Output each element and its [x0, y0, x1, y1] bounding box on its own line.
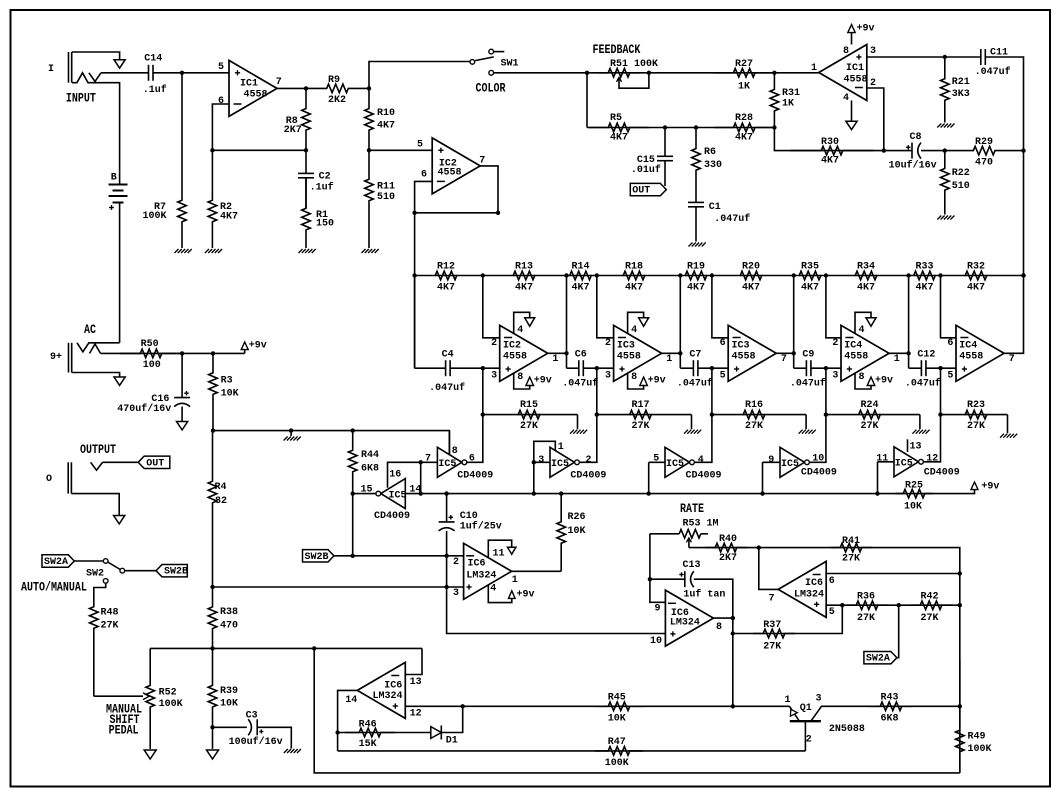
svg-text:R14: R14 [572, 262, 590, 273]
svg-text:R43: R43 [881, 692, 899, 703]
svg-text:CD4009: CD4009 [924, 467, 960, 478]
svg-text:IC5: IC5 [895, 458, 913, 469]
svg-text:AC: AC [84, 322, 96, 338]
svg-text:6K8: 6K8 [361, 464, 379, 475]
svg-text:R16: R16 [745, 400, 763, 411]
svg-text:8: 8 [716, 622, 722, 633]
svg-text:+9v: +9v [648, 376, 666, 387]
svg-text:8: 8 [631, 372, 637, 383]
svg-text:LM324: LM324 [670, 617, 700, 628]
svg-text:7: 7 [781, 354, 787, 365]
svg-text:27K: 27K [842, 553, 860, 564]
svg-text:6: 6 [720, 338, 726, 349]
svg-text:4K7: 4K7 [967, 283, 985, 294]
svg-text:330: 330 [704, 160, 722, 171]
svg-text:9: 9 [768, 455, 774, 466]
svg-text:R44: R44 [361, 450, 379, 461]
svg-text:R46: R46 [359, 719, 377, 730]
svg-text:R21: R21 [952, 77, 970, 88]
svg-text:R13: R13 [515, 262, 533, 273]
svg-text:R15: R15 [520, 400, 538, 411]
svg-text:FEEDBACK: FEEDBACK [593, 42, 642, 58]
svg-text:27K: 27K [745, 421, 763, 432]
svg-text:4: 4 [631, 325, 637, 336]
svg-text:6: 6 [421, 170, 427, 181]
svg-text:10K: 10K [904, 501, 922, 512]
svg-text:4: 4 [517, 325, 523, 336]
svg-text:7: 7 [1009, 354, 1015, 365]
svg-text:1: 1 [552, 354, 558, 365]
svg-text:C8: C8 [910, 132, 922, 143]
svg-text:+9v: +9v [249, 341, 267, 352]
svg-text:R45: R45 [608, 692, 626, 703]
svg-text:2: 2 [832, 338, 838, 349]
svg-text:11: 11 [876, 453, 888, 464]
svg-text:R23: R23 [967, 400, 985, 411]
svg-text:100K: 100K [159, 699, 183, 710]
svg-text:470: 470 [220, 620, 238, 631]
svg-text:R32: R32 [967, 262, 985, 273]
svg-text:27K: 27K [101, 621, 119, 632]
svg-text:R27: R27 [735, 59, 753, 70]
svg-text:1: 1 [558, 442, 564, 453]
svg-text:1: 1 [666, 354, 672, 365]
svg-text:4558: 4558 [732, 352, 756, 363]
svg-text:4558: 4558 [617, 352, 641, 363]
svg-text:IC6: IC6 [468, 559, 486, 570]
svg-text:5: 5 [417, 139, 423, 150]
svg-text:R50: R50 [141, 339, 159, 350]
svg-text:7: 7 [479, 156, 485, 167]
svg-text:5: 5 [218, 62, 224, 73]
svg-text:C2: C2 [319, 171, 331, 182]
svg-text:27K: 27K [921, 613, 939, 624]
svg-text:.047uf: .047uf [714, 213, 750, 225]
svg-text:C6: C6 [575, 349, 587, 360]
svg-text:PEDAL: PEDAL [109, 722, 139, 738]
svg-text:R52: R52 [159, 687, 177, 698]
svg-text:4K7: 4K7 [735, 132, 753, 143]
svg-text:R28: R28 [735, 113, 753, 124]
svg-text:R34: R34 [857, 262, 875, 273]
svg-text:.1uf: .1uf [143, 84, 167, 96]
svg-text:OUTPUT: OUTPUT [80, 442, 116, 458]
svg-text:C1: C1 [709, 202, 721, 213]
svg-text:C9: C9 [802, 349, 814, 360]
svg-text:1: 1 [785, 695, 791, 706]
svg-text:3: 3 [870, 46, 876, 57]
svg-text:.047uf: .047uf [905, 378, 941, 390]
svg-text:C12: C12 [917, 349, 935, 360]
svg-text:CD4009: CD4009 [801, 468, 837, 479]
svg-text:R40: R40 [719, 534, 737, 545]
svg-text:IC5: IC5 [551, 459, 569, 470]
svg-text:R36: R36 [857, 591, 875, 602]
svg-text:R53 1M: R53 1M [683, 518, 719, 529]
svg-text:3: 3 [453, 588, 459, 599]
svg-text:SW2: SW2 [86, 569, 104, 580]
svg-text:CD4009: CD4009 [457, 471, 493, 482]
svg-text:R18: R18 [625, 262, 643, 273]
svg-text:+9v: +9v [517, 589, 535, 600]
svg-text:R29: R29 [975, 137, 993, 148]
svg-text:4K7: 4K7 [515, 283, 533, 294]
svg-text:10K: 10K [568, 526, 586, 537]
svg-text:R17: R17 [632, 400, 650, 411]
svg-text:4K7: 4K7 [742, 283, 760, 294]
svg-text:R22: R22 [952, 168, 970, 179]
svg-text:2K2: 2K2 [328, 95, 346, 106]
svg-text:IC4: IC4 [959, 340, 977, 351]
svg-text:R26: R26 [568, 512, 586, 523]
svg-text:15: 15 [361, 484, 373, 495]
svg-text:6K8: 6K8 [881, 713, 899, 724]
svg-text:2: 2 [586, 455, 592, 466]
svg-text:2: 2 [605, 338, 611, 349]
svg-text:B: B [111, 173, 117, 184]
svg-text:3: 3 [832, 371, 838, 382]
svg-text:4558: 4558 [438, 168, 462, 179]
svg-text:7: 7 [425, 453, 431, 464]
svg-text:C10: C10 [460, 511, 478, 522]
svg-text:16: 16 [389, 469, 401, 480]
svg-text:4: 4 [698, 455, 704, 466]
svg-text:R30: R30 [821, 137, 839, 148]
svg-text:1: 1 [894, 354, 900, 365]
svg-text:IC4: IC4 [844, 340, 862, 351]
svg-text:D1: D1 [446, 735, 458, 746]
svg-text:R33: R33 [916, 262, 934, 273]
svg-text:SW2B: SW2B [305, 552, 329, 563]
svg-text:IC1: IC1 [240, 78, 258, 89]
svg-text:2N5088: 2N5088 [829, 724, 865, 735]
svg-text:14: 14 [345, 695, 357, 706]
svg-text:C14: C14 [144, 53, 162, 64]
svg-text:R5: R5 [610, 113, 622, 124]
svg-text:CD4009: CD4009 [686, 471, 722, 482]
svg-text:12: 12 [410, 708, 422, 719]
svg-text:SW2A: SW2A [44, 557, 68, 568]
svg-text:8: 8 [843, 46, 849, 57]
svg-text:OUT: OUT [632, 186, 650, 197]
svg-text:5: 5 [653, 453, 659, 464]
svg-text:4558: 4558 [844, 75, 868, 86]
svg-text:IC3: IC3 [617, 340, 635, 351]
svg-text:510: 510 [952, 181, 970, 192]
svg-text:OUT: OUT [146, 458, 164, 469]
svg-text:10: 10 [650, 636, 662, 647]
svg-text:100K: 100K [143, 211, 167, 222]
svg-text:CD4009: CD4009 [570, 471, 606, 482]
svg-text:R38: R38 [220, 607, 238, 618]
svg-text:R11: R11 [377, 182, 395, 193]
svg-text:11: 11 [493, 549, 505, 560]
svg-text:4K7: 4K7 [610, 132, 628, 143]
svg-text:CD4009: CD4009 [374, 511, 410, 522]
svg-text:.047uf: .047uf [562, 378, 598, 390]
svg-text:2: 2 [453, 557, 459, 568]
svg-text:150: 150 [316, 218, 334, 229]
svg-text:+9v: +9v [981, 481, 999, 492]
svg-text:R42: R42 [921, 591, 939, 602]
svg-text:7: 7 [769, 593, 775, 604]
svg-text:4K7: 4K7 [857, 283, 875, 294]
svg-text:27K: 27K [967, 421, 985, 432]
svg-text:4K7: 4K7 [687, 283, 705, 294]
svg-text:4: 4 [490, 584, 496, 595]
svg-text:INPUT: INPUT [66, 90, 96, 106]
svg-text:R9: R9 [328, 75, 340, 86]
svg-text:13: 13 [410, 677, 422, 688]
svg-text:R51 100K: R51 100K [610, 59, 658, 70]
svg-text:4: 4 [859, 325, 865, 336]
svg-text:4558: 4558 [844, 352, 868, 363]
svg-text:I: I [48, 64, 54, 75]
svg-text:4K7: 4K7 [801, 283, 819, 294]
svg-text:IC5: IC5 [389, 490, 407, 501]
svg-text:R48: R48 [101, 608, 119, 619]
svg-text:6: 6 [218, 96, 224, 107]
svg-text:9+: 9+ [50, 352, 62, 363]
svg-text:100: 100 [143, 360, 161, 371]
svg-text:1K: 1K [782, 98, 794, 109]
svg-text:27K: 27K [857, 613, 875, 624]
svg-text:100uf/16v: 100uf/16v [229, 736, 283, 748]
svg-text:R47: R47 [608, 737, 626, 748]
svg-text:2K7: 2K7 [284, 125, 302, 136]
svg-text:R37: R37 [763, 620, 781, 631]
svg-text:R25: R25 [905, 480, 923, 491]
svg-text:470uf/16v: 470uf/16v [117, 403, 171, 415]
svg-text:SW1: SW1 [501, 59, 519, 70]
svg-text:C3: C3 [246, 710, 258, 721]
svg-text:1uf/25v: 1uf/25v [460, 521, 502, 533]
svg-text:R41: R41 [842, 536, 860, 547]
svg-text:R20: R20 [742, 262, 760, 273]
svg-text:3K3: 3K3 [952, 89, 970, 100]
svg-text:R10: R10 [377, 108, 395, 119]
svg-text:13: 13 [910, 441, 922, 452]
svg-text:+9v: +9v [857, 24, 875, 35]
svg-text:.01uf: .01uf [631, 164, 661, 176]
svg-text:IC2: IC2 [503, 340, 521, 351]
svg-text:1: 1 [512, 575, 518, 586]
svg-text:10uf/16v: 10uf/16v [889, 159, 937, 171]
svg-text:8: 8 [517, 372, 523, 383]
svg-text:1: 1 [811, 63, 817, 74]
svg-text:1K: 1K [738, 82, 750, 93]
svg-text:2: 2 [491, 338, 497, 349]
svg-text:R35: R35 [801, 262, 819, 273]
svg-text:R12: R12 [437, 262, 455, 273]
svg-text:4558: 4558 [959, 352, 983, 363]
svg-text:R4: R4 [215, 482, 227, 493]
svg-text:.1uf: .1uf [310, 181, 334, 193]
svg-text:IC5: IC5 [666, 459, 684, 470]
svg-text:SW2B: SW2B [164, 567, 188, 578]
svg-text:10K: 10K [608, 714, 626, 725]
svg-text:R6: R6 [704, 147, 716, 158]
svg-text:4K7: 4K7 [916, 283, 934, 294]
svg-text:R3: R3 [221, 376, 233, 387]
svg-text:.047uf: .047uf [429, 382, 465, 394]
svg-text:4: 4 [843, 93, 849, 104]
svg-text:+9v: +9v [534, 376, 552, 387]
svg-text:14: 14 [409, 484, 421, 495]
svg-text:3: 3 [538, 455, 544, 466]
svg-text:R49: R49 [968, 731, 986, 742]
svg-text:5: 5 [720, 371, 726, 382]
svg-text:O: O [46, 474, 52, 485]
svg-text:82: 82 [215, 496, 227, 507]
svg-text:27K: 27K [520, 421, 538, 432]
svg-text:10K: 10K [220, 699, 238, 710]
svg-text:LM324: LM324 [466, 570, 496, 581]
svg-text:R24: R24 [861, 400, 879, 411]
svg-text:R39: R39 [220, 686, 238, 697]
svg-text:4K7: 4K7 [572, 283, 590, 294]
svg-text:8: 8 [859, 372, 865, 383]
svg-text:3: 3 [605, 371, 611, 382]
svg-text:5: 5 [947, 371, 953, 382]
svg-text:RATE: RATE [680, 501, 704, 517]
svg-text:C7: C7 [689, 349, 701, 360]
svg-text:4K7: 4K7 [625, 283, 643, 294]
svg-text:.047uf: .047uf [677, 378, 713, 390]
svg-text:.047uf: .047uf [790, 378, 826, 390]
svg-text:2K7: 2K7 [719, 553, 737, 564]
svg-text:+9v: +9v [875, 376, 893, 387]
svg-text:C13: C13 [683, 560, 701, 571]
svg-text:9: 9 [655, 603, 661, 614]
svg-text:10K: 10K [221, 388, 239, 399]
svg-text:470: 470 [975, 157, 993, 168]
svg-text:27K: 27K [763, 641, 781, 652]
svg-text:12: 12 [926, 453, 938, 464]
svg-text:4558: 4558 [503, 352, 527, 363]
svg-text:IC3: IC3 [732, 340, 750, 351]
svg-text:4K7: 4K7 [821, 155, 839, 166]
svg-text:7: 7 [276, 77, 282, 88]
svg-text:LM324: LM324 [794, 589, 824, 600]
svg-text:100K: 100K [605, 758, 629, 769]
svg-text:6: 6 [829, 576, 835, 587]
svg-text:IC5: IC5 [781, 459, 799, 470]
svg-text:IC1: IC1 [846, 63, 864, 74]
svg-text:6: 6 [947, 338, 953, 349]
svg-text:C4: C4 [442, 349, 454, 360]
svg-text:R19: R19 [687, 262, 705, 273]
svg-text:5: 5 [829, 607, 835, 618]
svg-text:27K: 27K [632, 421, 650, 432]
svg-text:IC6: IC6 [384, 680, 402, 691]
svg-text:4K7: 4K7 [377, 121, 395, 132]
svg-text:3: 3 [816, 693, 822, 704]
svg-text:IC6: IC6 [805, 578, 823, 589]
svg-text:LM324: LM324 [373, 691, 403, 702]
svg-text:3: 3 [491, 371, 497, 382]
svg-text:4K7: 4K7 [220, 211, 238, 222]
svg-text:8: 8 [452, 446, 458, 457]
svg-text:100K: 100K [968, 744, 992, 755]
svg-text:Q1: Q1 [800, 703, 812, 714]
svg-text:1uf tan: 1uf tan [683, 588, 725, 600]
svg-text:15K: 15K [359, 739, 377, 750]
svg-text:COLOR: COLOR [476, 80, 506, 96]
svg-text:SW2A: SW2A [866, 654, 890, 665]
svg-text:IC5: IC5 [438, 459, 456, 470]
svg-text:2: 2 [806, 734, 812, 745]
svg-text:AUTO/MANUAL: AUTO/MANUAL [21, 579, 87, 595]
svg-text:510: 510 [377, 192, 395, 203]
svg-text:.047uf: .047uf [975, 66, 1011, 78]
svg-text:4K7: 4K7 [437, 283, 455, 294]
svg-text:27K: 27K [861, 421, 879, 432]
svg-text:4558: 4558 [244, 90, 268, 101]
